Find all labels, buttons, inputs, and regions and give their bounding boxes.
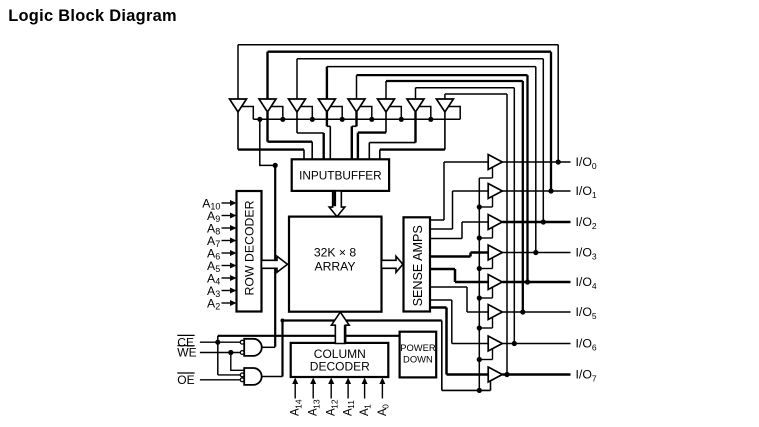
svg-text:6: 6 xyxy=(592,343,597,353)
svg-text:5: 5 xyxy=(215,264,220,274)
svg-text:I/O: I/O xyxy=(576,275,592,289)
svg-text:0: 0 xyxy=(592,161,597,171)
svg-text:DECODER: DECODER xyxy=(310,360,370,374)
svg-text:I/O: I/O xyxy=(576,246,592,260)
svg-text:4: 4 xyxy=(215,277,220,287)
svg-text:9: 9 xyxy=(215,214,220,224)
svg-text:I/O: I/O xyxy=(576,215,592,229)
svg-text:OE: OE xyxy=(177,373,194,387)
svg-text:INPUTBUFFER: INPUTBUFFER xyxy=(299,169,382,183)
svg-text:8: 8 xyxy=(215,227,220,237)
svg-text:11: 11 xyxy=(346,400,356,409)
svg-text:0: 0 xyxy=(381,404,391,409)
svg-text:ARRAY: ARRAY xyxy=(314,259,355,273)
svg-text:1: 1 xyxy=(363,404,373,409)
svg-text:3: 3 xyxy=(215,289,220,299)
svg-text:14: 14 xyxy=(293,399,303,409)
svg-text:I/O: I/O xyxy=(576,368,592,382)
svg-text:I/O: I/O xyxy=(576,184,592,198)
svg-text:7: 7 xyxy=(592,374,597,384)
svg-text:5: 5 xyxy=(592,311,597,321)
svg-text:13: 13 xyxy=(311,399,321,409)
svg-text:I/O: I/O xyxy=(576,337,592,351)
svg-text:I/O: I/O xyxy=(576,305,592,319)
svg-text:7: 7 xyxy=(215,239,220,249)
svg-text:12: 12 xyxy=(329,399,339,409)
svg-text:3: 3 xyxy=(592,252,597,262)
svg-text:DOWN: DOWN xyxy=(403,353,433,364)
svg-text:4: 4 xyxy=(592,281,597,291)
svg-text:32K × 8: 32K × 8 xyxy=(314,246,357,260)
svg-text:WE: WE xyxy=(177,346,196,360)
svg-text:SENSE AMPS: SENSE AMPS xyxy=(411,225,425,306)
svg-text:2: 2 xyxy=(592,221,597,231)
svg-text:ROW DECODER: ROW DECODER xyxy=(242,200,256,295)
svg-text:I/O: I/O xyxy=(576,155,592,169)
svg-text:POWER: POWER xyxy=(400,342,436,353)
svg-text:2: 2 xyxy=(215,302,220,312)
svg-text:6: 6 xyxy=(215,252,220,262)
svg-text:1: 1 xyxy=(592,190,597,200)
